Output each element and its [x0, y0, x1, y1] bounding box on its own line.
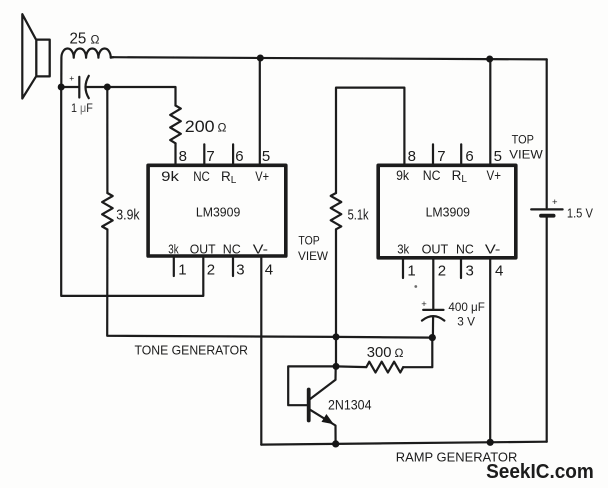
- junction: top rail at U2 pin 5: [486, 56, 493, 63]
- resistor R3 5.1k: [331, 193, 342, 229]
- U2 pin 6 tick: [460, 144, 462, 163]
- svg-text:8: 8: [408, 148, 416, 165]
- svg-text:4: 4: [495, 262, 503, 279]
- U1 pin 7 tick: [203, 144, 205, 163]
- wire: node B to Q1 base loop: [288, 366, 336, 405]
- svg-text:4: 4: [265, 262, 273, 279]
- svg-text:3: 3: [466, 262, 474, 279]
- transistor Q1 base bar: [307, 390, 311, 421]
- svg-text:6: 6: [235, 148, 243, 165]
- capacitor C2 400uF top plate: [423, 309, 443, 311]
- resistor R1 200 ohm: [170, 106, 181, 144]
- svg-text:NC: NC: [223, 242, 241, 256]
- svg-text:400 μF: 400 μF: [448, 302, 485, 314]
- svg-text:LM3909: LM3909: [426, 205, 470, 220]
- svg-text:1.5 V: 1.5 V: [567, 207, 594, 221]
- value label L1 25 ohm: [70, 31, 100, 48]
- junction: top rail at U1 pin 5: [257, 55, 264, 62]
- capacitor C1 1uF curved plate: [86, 76, 108, 98]
- svg-text:V+: V+: [255, 169, 269, 184]
- svg-text:LM3909: LM3909: [196, 205, 240, 220]
- wire: cap C1 to resistor R1 top: [107, 87, 175, 106]
- svg-text:7: 7: [437, 148, 445, 165]
- wire: resistor R1 to U1 pin 8: [174, 143, 176, 163]
- wire: cap node down to 3.9k: [106, 87, 108, 193]
- svg-text:OUT: OUT: [422, 243, 449, 257]
- svg-text:1 μF: 1 μF: [71, 101, 93, 115]
- junction: bottom rail at U2 pin 4: [487, 439, 494, 446]
- wire: V+ rail to U1 pin 5: [259, 57, 261, 163]
- svg-text:TOP: TOP: [512, 134, 535, 146]
- svg-text:5: 5: [262, 148, 270, 165]
- U2 pin 1 tick: [402, 260, 404, 278]
- junction: C1 / R1 / 3.9k node: [104, 84, 111, 91]
- wire: node A to node B vertical: [335, 337, 337, 367]
- svg-text:25: 25: [70, 31, 87, 48]
- wire: U2 pin 2 to capacitor C2: [432, 260, 434, 309]
- transistor Q1 emitter: [310, 410, 336, 444]
- svg-text:V-: V-: [253, 242, 268, 256]
- wire: U1 pin 4 down to bottom rail: [260, 258, 262, 445]
- value label R4 300 ohm: [367, 344, 404, 361]
- wire: speaker/cap node down left side: [61, 87, 203, 296]
- svg-text:NC: NC: [456, 243, 474, 257]
- svg-text:+: +: [552, 197, 558, 208]
- wire: 5.1k bottom to node A: [335, 229, 337, 337]
- svg-text:NC: NC: [193, 169, 210, 184]
- wire: 5.1k top bent lead to U2 pin 8: [336, 88, 404, 193]
- junction: node A at 5.1k: [333, 333, 340, 340]
- wire: C2 to node A: [432, 317, 434, 338]
- capacitor C2 400uF curved plate: [422, 316, 445, 321]
- svg-text:3k: 3k: [168, 242, 179, 256]
- battery BT1 short plate: [541, 214, 554, 218]
- wire: bottom rail: [261, 442, 546, 445]
- svg-text:V+: V+: [487, 168, 502, 183]
- svg-text:Ω: Ω: [395, 346, 404, 360]
- IC U1 LM3909 body: [148, 165, 286, 256]
- wire: 3.9k to tone-generator output line: [107, 230, 336, 337]
- svg-text:NC: NC: [423, 168, 441, 183]
- svg-text:6: 6: [465, 148, 473, 165]
- svg-text:9k: 9k: [396, 168, 409, 183]
- IC U2 LM3909 body: [378, 165, 516, 257]
- wire: node B to 300 ohm left: [336, 365, 366, 368]
- value label R1 200 ohm: [185, 118, 227, 136]
- capacitor C1 1uF left plate: [61, 77, 79, 98]
- svg-text:3k: 3k: [397, 243, 410, 257]
- svg-text:1: 1: [407, 262, 415, 279]
- U1 pin 3 tick: [232, 258, 234, 276]
- svg-text:2N1304: 2N1304: [328, 398, 372, 413]
- svg-text:VIEW: VIEW: [298, 251, 328, 263]
- svg-text:300: 300: [367, 344, 392, 361]
- wire: battery bottom lead: [546, 218, 548, 442]
- wire: node A segment to C2 node: [336, 336, 432, 339]
- wire: 300 ohm right up to C2 node: [403, 338, 432, 368]
- battery BT1 long plate: [531, 208, 562, 210]
- inductor L1 25 ohm: [61, 49, 113, 87]
- U2 pin 7 tick: [432, 144, 434, 163]
- junction: node A at C2: [429, 334, 436, 341]
- note: U1 top view: [298, 236, 328, 263]
- wire: U2 pin 4 down to bottom rail: [489, 260, 491, 443]
- svg-text:3: 3: [236, 262, 244, 279]
- svg-text:3.9k: 3.9k: [116, 207, 140, 224]
- transistor Q1 collector: [310, 367, 336, 400]
- svg-text:7: 7: [206, 148, 214, 165]
- speaker LS1 cone: [22, 14, 49, 98]
- junction: node B at Q1: [333, 363, 340, 370]
- svg-text:5: 5: [494, 148, 502, 165]
- U1 pin 1 tick: [173, 258, 175, 276]
- svg-text:TONE GENERATOR: TONE GENERATOR: [135, 343, 249, 358]
- resistor R4 300 ohm: [366, 362, 403, 373]
- note: U2 top view: [509, 134, 543, 161]
- wire: V+ top rail: [111, 57, 547, 59]
- svg-text:TOP: TOP: [298, 236, 320, 248]
- svg-text:9k: 9k: [161, 169, 179, 184]
- U1 pin 6 tick: [232, 144, 234, 163]
- svg-text:VIEW: VIEW: [509, 150, 543, 162]
- svg-text:2: 2: [207, 262, 215, 279]
- svg-text:3 V: 3 V: [457, 315, 475, 329]
- transistor Q1 emitter arrowhead: [322, 414, 334, 424]
- svg-text:+: +: [69, 73, 74, 83]
- svg-text:8: 8: [179, 148, 187, 165]
- svg-text:V-: V-: [485, 243, 501, 257]
- svg-text:1: 1: [178, 262, 186, 279]
- junction: speaker / C1 / L1 node: [58, 84, 65, 91]
- junction: bottom rail at Q1 emitter: [332, 440, 339, 447]
- wire: battery top lead: [546, 59, 548, 207]
- svg-text:2: 2: [438, 262, 446, 279]
- resistor R2 3.9k: [102, 193, 113, 230]
- svg-text:Ω: Ω: [91, 32, 100, 46]
- wire: V+ rail to U2 pin 5: [489, 59, 491, 164]
- svg-text:SeekIC.com: SeekIC.com: [486, 460, 594, 483]
- stray scan mark near U2 pin 1: [414, 285, 417, 288]
- svg-text:+: +: [421, 299, 427, 310]
- svg-text:Ω: Ω: [218, 121, 227, 135]
- U2 pin 3 tick: [460, 260, 462, 278]
- svg-text:200: 200: [185, 118, 215, 136]
- svg-text:5.1k: 5.1k: [348, 206, 369, 223]
- svg-text:OUT: OUT: [190, 242, 216, 256]
